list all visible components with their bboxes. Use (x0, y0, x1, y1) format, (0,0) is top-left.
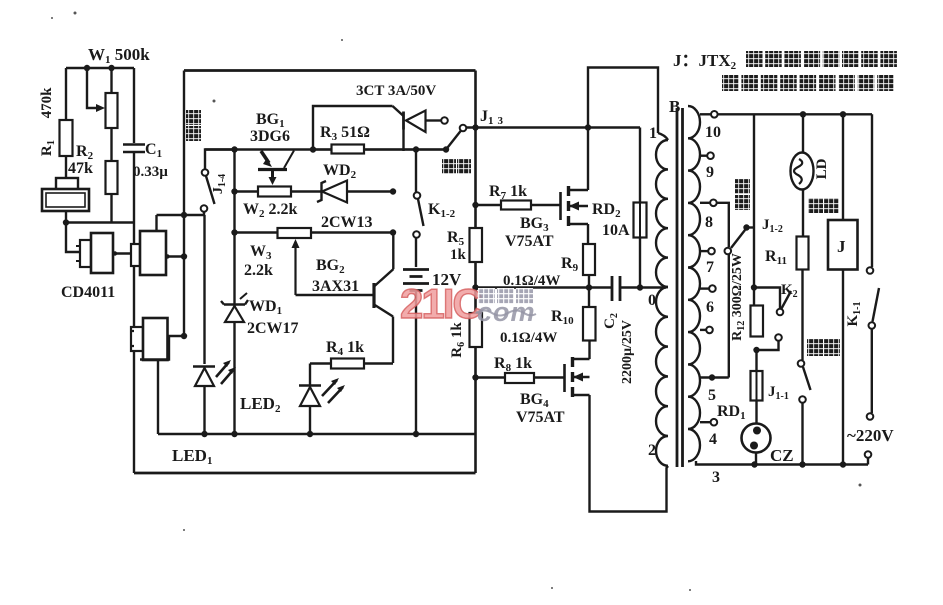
svg-text:2CW13: 2CW13 (321, 214, 373, 231)
capacitor C1 plates (123, 145, 145, 153)
sensor probe body (42, 189, 89, 211)
wire left bias vertical (233, 150, 235, 435)
note line2 chinese (one four-pole relay) (722, 75, 739, 91)
wire main bias rail y149 (205, 148, 446, 150)
node W2 left (231, 188, 237, 194)
wire outer box right edge (474, 71, 477, 474)
AC supply terminal upper (867, 413, 874, 420)
resistor R10 body (583, 307, 596, 341)
svg-text:2.2k: 2.2k (244, 262, 273, 279)
node RD2 mid rail (637, 284, 643, 290)
wire R4 left lead (310, 362, 331, 364)
wire R8 lead right (534, 376, 565, 378)
tap 6 terminal (709, 285, 716, 292)
node feedback crossing (181, 212, 187, 218)
wire W1 wiper arm (87, 68, 101, 108)
label normally-closed (rotated) for J1-4 (186, 110, 201, 125)
IC gate A body (CD4011) (91, 233, 113, 273)
svg-text:J: J (837, 237, 846, 256)
socket CZ bottom prong (750, 442, 758, 450)
wire K1-1 to AC terminal (871, 329, 873, 413)
wire W1 to R2 (110, 128, 112, 161)
node gate B output to feedback line (181, 253, 187, 259)
transistor BG2 collector (374, 269, 394, 287)
thyristor 3CT cathode bar (402, 112, 405, 130)
IC gate C input box (CD4011) (131, 327, 143, 351)
transistor BG1 emitter (284, 151, 294, 169)
svg-text:3AX31: 3AX31 (312, 278, 359, 295)
wire switch J1-4 to gates (157, 214, 205, 216)
label normally-closed for J1-3 (442, 159, 456, 174)
transformer secondary winding (688, 106, 700, 461)
wire W3 left lead (235, 231, 278, 233)
socket CZ outline (742, 424, 771, 453)
wire BG4 source loop to tap2 (590, 395, 669, 512)
mosfet BG3 body stub with arrow (569, 205, 589, 208)
wire W2 right lead (291, 190, 321, 192)
mosfet BG3 channel dashes (567, 186, 570, 226)
resistor R11 body (797, 237, 809, 270)
resistor R7 body (501, 201, 531, 210)
fuse RD2 body (634, 203, 647, 238)
switch J1-2 pivot contact (725, 248, 732, 255)
mosfet BG4 drain stub (573, 358, 590, 361)
node R3 branch (310, 146, 316, 152)
transistor BG2 emitter (374, 305, 393, 317)
node J1-1 bottom (799, 461, 805, 467)
svg-text:47k: 47k (68, 160, 93, 177)
thyristor 3CT triangle (406, 111, 426, 133)
wire C2 to tap0 (620, 286, 666, 288)
lamp LD bulb (791, 153, 814, 190)
wire tap1 feed up-and-over (588, 68, 658, 134)
wire lamp to R11 (802, 190, 804, 237)
mosfet BG4 channel dashes (571, 357, 574, 397)
switch J1-4 feed wire (205, 150, 235, 170)
svg-text:~220V: ~220V (847, 426, 894, 445)
thyristor 3CT gate lead (402, 130, 404, 152)
wire R10 top (588, 288, 590, 308)
switch J1-4 top contact (202, 169, 209, 176)
watermark chinese gray (478, 288, 495, 304)
node relay J bottom (840, 461, 846, 467)
tap 4 lead (700, 421, 711, 423)
node BG3 drain branch (585, 124, 591, 130)
mosfet BG4 body stub with arrow (573, 376, 590, 379)
wire BG3 source down (587, 224, 589, 244)
switch J1-4 bottom contact (201, 205, 208, 212)
wire BG2 emitter down (392, 317, 394, 364)
switch J1-1 bottom contact (799, 396, 806, 403)
wire bottom of input divider (66, 221, 134, 223)
socket CZ top prong (753, 427, 761, 435)
svg-text:com: com (477, 297, 536, 327)
svg-text:0.33µ: 0.33µ (133, 164, 168, 180)
zener WD1 symbol (bar above, triangle apex-up) (221, 300, 248, 305)
wire right rail down (871, 114, 873, 267)
wire K2 bottom to R12 node (757, 341, 779, 350)
wire inner box left edge (feedback line) (183, 71, 185, 337)
wire sensor to bottom node (65, 211, 67, 223)
wire lamp top lead (802, 114, 804, 153)
wire outer box bottom edge (134, 472, 476, 475)
svg-text:1k: 1k (450, 247, 467, 263)
wire AC terminal to bottom wire (867, 458, 869, 465)
node R12 bottom (753, 347, 759, 353)
svg-text:2200µ/25V: 2200µ/25V (620, 320, 635, 384)
svg-text:J：JTX2: J：JTX2 (673, 51, 737, 72)
wire R10 to BG4 drain (588, 341, 590, 360)
switch K1-2 top contact (414, 192, 421, 199)
wire WD2 anode (347, 190, 393, 192)
wire top to C1 (133, 68, 135, 143)
svg-text:R4 1k: R4 1k (326, 339, 364, 358)
wire inner box top edge (184, 69, 476, 72)
mosfet BG3 source stub (569, 223, 589, 226)
resistor R8 body (505, 373, 534, 383)
svg-text:LED2: LED2 (240, 394, 281, 415)
AC supply terminal lower (865, 451, 872, 458)
wire R7 lead right (531, 204, 561, 206)
svg-text:10: 10 (705, 124, 721, 141)
wire CZ to bottom wire (755, 453, 757, 465)
node CZ bottom (751, 461, 757, 467)
label normally-closed (rotated) for J1-2 (735, 179, 750, 194)
svg-text:1: 1 (649, 125, 657, 142)
node bias rail left (231, 146, 237, 152)
tap 10 lead (700, 113, 711, 115)
svg-text:21IC: 21IC (400, 280, 482, 327)
svg-text:V75AT: V75AT (516, 409, 565, 426)
resistor R9 body (583, 244, 595, 275)
wire K1-2 to battery (415, 238, 417, 267)
wire battery to ground rail (415, 291, 417, 435)
resistor R6 body (470, 313, 483, 347)
wire gate B output (166, 255, 184, 257)
svg-text:3DG6: 3DG6 (250, 128, 290, 145)
node relay branch (840, 111, 846, 117)
tap 5 lead (700, 329, 706, 331)
svg-text:4: 4 (709, 431, 717, 448)
node lamp branch (800, 111, 806, 117)
battery 12V plates (403, 270, 429, 291)
node W3 right junction (390, 229, 396, 235)
switch J1-2 arm (731, 230, 745, 248)
wire gate B top feed (155, 215, 157, 231)
wire K1-2 feed (415, 150, 417, 193)
node WD2 anode junction (390, 188, 396, 194)
mosfet BG4 source stub (573, 394, 590, 397)
IC gate B input box (CD4011) (131, 244, 140, 266)
node J1-3 wire at box edge (472, 124, 478, 130)
resistor R3 body (332, 145, 365, 154)
sensor probe head (56, 178, 78, 190)
wire W2 left lead (235, 190, 259, 192)
transformer core (677, 108, 683, 467)
LED1 light arrows (216, 362, 234, 384)
LED2 symbol (bar above, triangle apex-up) (299, 384, 321, 387)
tap 7 terminal (708, 248, 715, 255)
svg-text:10A: 10A (602, 222, 630, 239)
switch J1-3 arm (446, 131, 461, 150)
wire mid rail (476, 286, 612, 288)
node gate A output (113, 251, 117, 255)
node K1-2 branch (413, 146, 419, 152)
relay J body (828, 220, 858, 270)
svg-text:9: 9 (706, 164, 714, 181)
svg-text:3: 3 (712, 469, 720, 486)
wire R9 to mid rail (588, 275, 590, 288)
wire sensor to gate A input (66, 223, 80, 253)
switch J1-2 fixed contact (743, 224, 749, 230)
wire bottom return (754, 463, 868, 465)
wire R7 lead left (476, 204, 502, 206)
tap 3 lead (winding bottom) (696, 461, 754, 465)
LED2 light arrows (322, 380, 343, 403)
switch K1-2 arm (418, 199, 424, 226)
tap 5b lead to J1-2 pivot line (700, 376, 729, 378)
wire J1-2 pivot down to tap5b (728, 255, 730, 378)
svg-text:6: 6 (706, 299, 714, 316)
transformer B primary lower winding (tap0-tap2) (656, 287, 668, 466)
wire LED1 cathode to rail (203, 386, 205, 434)
svg-text:LD: LD (814, 158, 830, 179)
node LED1 ground (201, 431, 207, 437)
wire R2 bottom lead (110, 194, 112, 223)
potentiometer W3 body (278, 228, 312, 238)
svg-text:B: B (669, 97, 680, 116)
zener WD2 cathode bar (317, 181, 326, 202)
IC gate C body (CD4011) (143, 318, 168, 360)
IC gate B body (CD4011) (140, 231, 166, 275)
svg-text:V75AT: V75AT (505, 233, 554, 250)
node junction W1-wiper (84, 65, 90, 71)
wire slant to SCR (393, 106, 404, 116)
label normally-closed for J1-1 (807, 339, 823, 356)
wire gate C output (168, 335, 185, 337)
svg-text:0.1Ω/4W: 0.1Ω/4W (500, 330, 557, 346)
wire LED2 anode down (309, 364, 311, 386)
svg-text:CZ: CZ (770, 446, 794, 465)
mosfet BG4 gate bar (563, 364, 566, 392)
potentiometer W1 body (106, 93, 118, 128)
switch K1-2 bottom contact (413, 231, 420, 238)
node mid rail at box edge (472, 284, 478, 290)
transistor BG1 base-to-W2 wiper stub (271, 171, 274, 180)
zener WD2 triangle (322, 181, 347, 203)
tap 9 terminal (707, 152, 714, 159)
svg-text:R3 51Ω: R3 51Ω (320, 124, 370, 143)
svg-text:2CW17: 2CW17 (247, 320, 299, 337)
switch K2 top contact (777, 309, 784, 316)
wire RD2 top (639, 128, 641, 203)
tap 7 lead (700, 250, 708, 252)
LED1 symbol (bar above, triangle apex-up) (193, 365, 215, 368)
capacitor C2 plates (612, 276, 620, 301)
svg-text:R6 1k: R6 1k (449, 322, 467, 358)
tap 10 terminal (711, 111, 718, 118)
svg-text:R7 1k: R7 1k (489, 183, 527, 202)
wire J1-1 to bottom (801, 403, 803, 465)
tap 8 terminal (710, 200, 717, 207)
wire R1 to sensor (65, 156, 67, 178)
node battery ground (413, 431, 419, 437)
svg-text:470k: 470k (39, 87, 55, 119)
transistor BG2 base wire (296, 294, 373, 296)
wire RD2 bottom (639, 238, 641, 288)
note line1 chinese (use two together or) (746, 51, 763, 67)
svg-text:5: 5 (708, 387, 716, 404)
svg-text:W2 2.2k: W2 2.2k (243, 201, 298, 220)
wire J1-3 output to transformer (467, 126, 641, 128)
svg-text:7: 7 (706, 259, 714, 276)
mosfet BG3 gate bar (559, 192, 562, 220)
tap 9 lead (700, 154, 707, 156)
wire left rail down (lamp circuit) (753, 114, 755, 305)
wire R3 leads (313, 148, 446, 150)
thyristor 3CT anode wire (426, 119, 442, 121)
svg-text:8: 8 (705, 214, 713, 231)
node junction W1-top (108, 65, 114, 71)
label lamp name (neon bulb) (808, 198, 823, 213)
wire R12 to RD1 (755, 350, 757, 371)
node sensor output (63, 219, 69, 225)
thyristor 3CT anode terminal (441, 117, 448, 124)
switch K2 arm (782, 291, 792, 309)
gate C input stubs (131, 331, 134, 346)
wire R8 lead left (476, 376, 506, 378)
transistor BG1 collector (thick arrow) (261, 151, 269, 163)
node R9 mid rail (586, 284, 592, 290)
switch K1-1 top contact (867, 267, 874, 274)
node gate C output junction (181, 333, 187, 339)
tap 8 lead (700, 202, 710, 204)
resistor R12 body (751, 306, 764, 337)
wire gate C output branch down to rail (140, 336, 169, 360)
wire left drop to R1 (65, 68, 67, 120)
wire C1 down left edge (133, 152, 135, 473)
wire R3 branch up (313, 106, 393, 150)
fuse RD1 element line (756, 371, 758, 401)
resistor R2 body (106, 161, 118, 194)
wire W3 right lead (311, 231, 393, 233)
transistor BG1 base bar (258, 168, 287, 171)
svg-text:LED1: LED1 (172, 446, 212, 467)
wire J1-4 to gate feed (203, 212, 205, 215)
wire J1-2 contact to left rail (747, 226, 755, 228)
resistor R5 body (470, 228, 483, 262)
svg-text:W1 500k: W1 500k (88, 45, 150, 66)
wire R11 to J1-1 (801, 270, 803, 361)
wire relay J bottom lead (842, 270, 844, 465)
switch K1-1 arm (873, 288, 880, 322)
svg-text:CD4011: CD4011 (61, 284, 115, 301)
wire W1 top lead (110, 68, 112, 93)
node K2 branch top (751, 284, 757, 290)
svg-text:3CT 3A/50V: 3CT 3A/50V (356, 83, 436, 99)
switch J1-3 moving contact (460, 125, 467, 132)
lamp LD filament (794, 159, 802, 184)
resistor R1 body (60, 120, 73, 156)
switch J1-1 arm (803, 367, 811, 390)
potentiometer W2 body (258, 187, 291, 197)
switch K2 bottom contact (775, 334, 782, 341)
mosfet BG3 drain stub (569, 189, 589, 192)
transistor BG2 base bar (372, 283, 375, 308)
wire BG3 drain up (587, 128, 589, 191)
tap 4 terminal (711, 419, 718, 426)
tap 6 lead (700, 287, 709, 289)
wire R4 right lead (364, 362, 393, 364)
svg-text:2: 2 (648, 442, 656, 459)
wire inner ground rail (158, 433, 476, 435)
transformer B primary upper winding (tap1-tap0) (658, 133, 668, 140)
wire LED2 cathode to rail (309, 406, 311, 434)
switch J1-4 arm (206, 176, 215, 204)
IC gate A input box (CD4011) (80, 240, 91, 267)
resistor R4 body (331, 359, 364, 369)
wire RD1 to CZ (755, 401, 757, 425)
wire W1 top rail (66, 67, 134, 69)
switch J1-1 top contact (798, 360, 805, 367)
node WD1 ground (231, 431, 237, 437)
wire top rail from tap10 (718, 113, 872, 115)
wire BG2 collector up (392, 233, 394, 270)
fuse RD1 body (751, 371, 763, 401)
node J1-3 pivot (443, 146, 449, 152)
wire branch corner to inner ground rail (157, 360, 159, 435)
W3 wiper arrow (294, 244, 296, 295)
switch K1-1 bottom contact (869, 322, 876, 329)
node tap 5b (709, 374, 715, 380)
tap 5 terminal (706, 327, 713, 334)
wire LED1 branch down (203, 215, 205, 364)
node gate B output (165, 254, 169, 258)
node R7 branch (472, 202, 478, 208)
wire tap8 hook to J1-2 (717, 203, 729, 247)
svg-text:R8 1k: R8 1k (494, 355, 532, 374)
svg-text:0: 0 (648, 292, 656, 309)
node LED2 ground (307, 431, 313, 437)
wire K2 branch top (754, 288, 780, 309)
wire gate A output to gate B (113, 252, 131, 254)
node R8 branch (472, 374, 478, 380)
wire relay J top lead (842, 114, 844, 220)
fuse RD2 element line (639, 203, 641, 238)
node W3 left (231, 229, 237, 235)
W1 wiper arrowhead (96, 104, 105, 112)
